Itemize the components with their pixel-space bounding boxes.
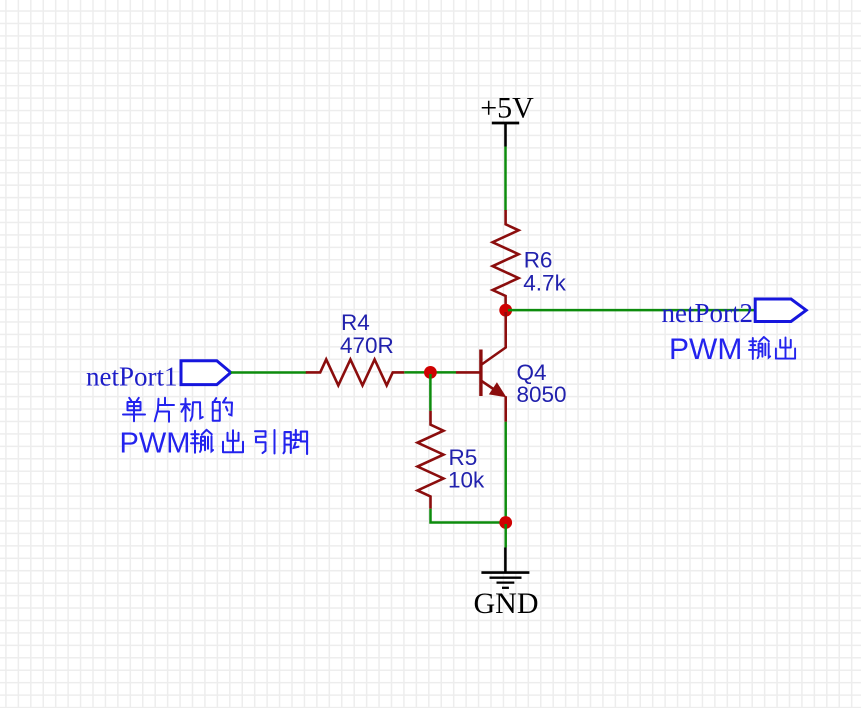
transistor Q4 emitter arrow (490, 383, 506, 396)
transistor Q4 emitter lead (481, 381, 500, 394)
svg-text:PWM: PWM (669, 333, 742, 366)
transistor Q2 collector lead (481, 312, 506, 365)
wire +5V to R6 (504, 147, 507, 211)
svg-text:R6: R6 (524, 248, 553, 273)
wire emitter to node C (504, 422, 507, 529)
node C: emitter/ground junction (499, 516, 512, 529)
svg-text:R5: R5 (449, 445, 478, 470)
wire R4 to node B (404, 371, 456, 374)
wire netPort1 to R4 (231, 371, 307, 374)
ground symbol (481, 573, 529, 588)
svg-text:470R: 470R (340, 333, 394, 358)
svg-text:8050: 8050 (517, 382, 567, 407)
svg-text:+5V: +5V (480, 92, 534, 125)
port netPort1 (181, 361, 231, 385)
wire node C to GND (504, 524, 507, 548)
node B: base junction (424, 366, 437, 379)
transistor Q4 emitter pin (504, 396, 507, 422)
annotation 单片机的 (123, 398, 232, 422)
svg-text:GND: GND (474, 587, 539, 620)
svg-text:PWM: PWM (120, 428, 191, 460)
svg-text:10k: 10k (448, 468, 485, 493)
wire R5 to node C (431, 509, 506, 523)
wire node B to R5 (429, 374, 432, 411)
svg-text:netPort1: netPort1 (86, 362, 178, 392)
port netPort2 (755, 299, 806, 322)
transistor Q4 base bar (479, 350, 482, 397)
resistor R5 (418, 411, 444, 509)
power +5V bar symbol (492, 122, 519, 125)
node A: collector junction (499, 304, 512, 317)
resistor R6 (493, 210, 519, 311)
resistor R4 (306, 359, 405, 385)
wire node A to netPort2 (508, 309, 755, 312)
svg-text:4.7k: 4.7k (523, 270, 566, 295)
transistor Q4 base lead (456, 371, 481, 374)
power +5V pin wire (black) (504, 123, 507, 147)
ground pin wire (black) (504, 548, 507, 573)
svg-text:netPort2: netPort2 (662, 298, 754, 328)
svg-text:R4: R4 (341, 310, 370, 335)
